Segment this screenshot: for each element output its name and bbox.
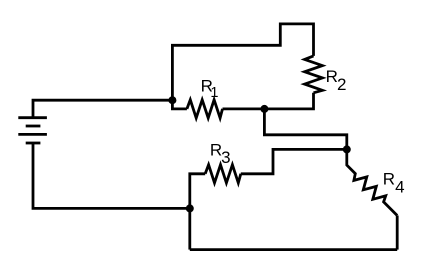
wire node A step down to R1 bbox=[172, 100, 187, 109]
svg-text:R4: R4 bbox=[383, 170, 405, 197]
wire node D up to R3 bbox=[190, 174, 205, 209]
svg-text:R3: R3 bbox=[210, 140, 231, 167]
node A bbox=[168, 96, 176, 104]
battery V1 bbox=[18, 118, 47, 143]
node B bbox=[260, 105, 268, 113]
svg-text:R1: R1 bbox=[201, 76, 219, 101]
wire bottom rail bbox=[190, 248, 397, 251]
wire R3 right up to node C bbox=[241, 149, 347, 173]
resistor R3 bbox=[205, 165, 241, 183]
node C bbox=[343, 145, 351, 153]
resistor R1 bbox=[187, 100, 223, 118]
wire R1 right to node B bbox=[223, 108, 265, 111]
node D bbox=[186, 204, 194, 212]
svg-text:R2: R2 bbox=[326, 67, 347, 94]
wire battery negative to node D bbox=[33, 143, 190, 208]
wire node A up and across to R2 top bbox=[172, 24, 313, 100]
resistor R2 bbox=[305, 56, 323, 93]
wire R4 bottom to bottom rail bbox=[396, 216, 399, 250]
wire node B down and across to node C bbox=[264, 109, 346, 149]
wire battery positive to node A bbox=[33, 100, 172, 118]
wire node D down to bottom rail bbox=[188, 208, 191, 249]
resistor R4 bbox=[347, 149, 397, 215]
wire R2 bottom to node B bbox=[264, 93, 313, 109]
